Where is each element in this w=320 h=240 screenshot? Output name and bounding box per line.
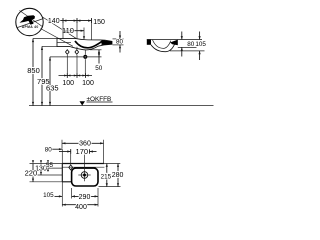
section dim 80 <box>181 32 195 57</box>
dim 80 at side view front <box>113 31 124 53</box>
svg-text:220: 220 <box>25 169 38 178</box>
svg-text:100: 100 <box>62 80 74 87</box>
section bowl inner <box>153 40 171 49</box>
svg-text:50: 50 <box>95 65 103 72</box>
plan dim 215 <box>99 164 121 187</box>
svg-text:APMA 40: APMA 40 <box>22 25 39 29</box>
plan top ext 163.5 left <box>30 163 63 165</box>
dim line 110 <box>63 30 84 32</box>
floor level triangle <box>80 101 86 105</box>
svg-text:80: 80 <box>116 39 124 46</box>
plan dim 55 <box>45 160 63 171</box>
plan dim 80 left <box>45 146 71 164</box>
height line 795 <box>37 46 50 105</box>
plan dim 360 <box>62 140 104 164</box>
extension verticals top dims <box>62 18 64 39</box>
dim line 140/150 top <box>60 18 92 23</box>
plan dim 280 <box>112 164 124 187</box>
svg-text:150: 150 <box>93 19 105 26</box>
plan dim 220 <box>25 160 63 182</box>
ext diamonds to 100-dim <box>66 55 68 76</box>
svg-text:105: 105 <box>43 192 54 199</box>
height line 635 <box>46 57 59 106</box>
side view basin profile <box>57 39 112 50</box>
svg-text:280: 280 <box>112 172 124 179</box>
leader line upper <box>43 17 77 38</box>
plan dim 400 <box>62 204 98 211</box>
svg-text:170: 170 <box>76 147 89 156</box>
svg-text:850: 850 <box>27 66 40 75</box>
svg-text:55: 55 <box>46 162 54 169</box>
dim 50 <box>95 50 103 72</box>
svg-text:80: 80 <box>187 41 195 48</box>
svg-text:80: 80 <box>45 146 53 153</box>
plan dim 170 <box>59 147 97 156</box>
dim chain 100 100 <box>59 73 94 87</box>
plan drain <box>81 172 88 179</box>
section bowl outer <box>151 42 176 52</box>
plan dim 105 <box>43 182 72 207</box>
drain pipe stub <box>84 50 86 55</box>
plan dim 130 <box>35 160 62 175</box>
plan bowl <box>72 168 98 186</box>
height line 850 <box>27 39 40 106</box>
section right cut wedge <box>170 40 178 46</box>
plan left edge <box>61 164 63 182</box>
ext 795 <box>42 45 57 47</box>
plan fixing diamond <box>69 165 73 170</box>
plan view back edge <box>62 163 104 165</box>
trap connection dot <box>83 55 87 59</box>
svg-text:635: 635 <box>46 83 59 92</box>
plan left step <box>62 181 71 183</box>
svg-text:215: 215 <box>101 173 112 180</box>
plan back inner line <box>62 166 104 168</box>
leader line lower <box>41 29 74 47</box>
floor line <box>29 105 214 107</box>
svg-text:290: 290 <box>79 194 91 201</box>
fixing diamond right <box>75 50 79 55</box>
floor label underline <box>87 101 113 103</box>
tap position arrow <box>83 28 85 40</box>
section ext 105 bottom <box>170 50 205 52</box>
section dim 105 <box>195 32 206 61</box>
svg-text:400: 400 <box>75 204 87 211</box>
svg-text:110: 110 <box>62 26 74 35</box>
svg-text:140: 140 <box>48 18 60 25</box>
plan drain cross h <box>78 174 90 176</box>
detail circle <box>16 8 44 35</box>
section left cut bar <box>147 40 151 45</box>
svg-text:105: 105 <box>195 41 206 48</box>
section view right: rim top line <box>147 39 202 41</box>
plan drain cross v <box>84 155 86 182</box>
ext 850 <box>33 38 57 40</box>
bowl underside ext <box>90 49 102 51</box>
plan dim 290 <box>72 188 98 207</box>
silicone gun icon <box>20 15 36 25</box>
trap level line <box>50 56 102 58</box>
section ext 80 bottom <box>178 46 197 48</box>
fixing diamond left <box>66 50 70 55</box>
svg-text:100: 100 <box>82 80 94 87</box>
